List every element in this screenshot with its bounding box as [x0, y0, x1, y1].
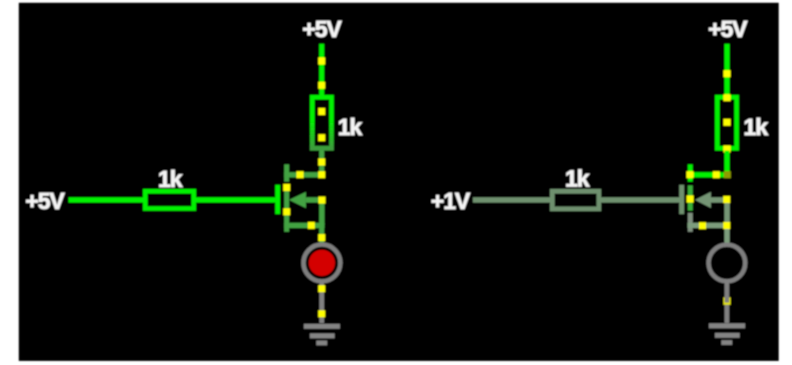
- current dot on wire B1: [724, 70, 731, 77]
- Q2 source stub: [688, 223, 728, 228]
- Q1 channel source segment: [284, 213, 289, 232]
- wire A5 : +5V input label to resistor R2: [69, 197, 144, 202]
- svg-text:1k: 1k: [338, 114, 363, 140]
- wire B6 : R4 to Q2 gate: [601, 197, 680, 202]
- wire B4 : LED D2 to ground: [725, 280, 730, 323]
- Q2 gate plate: [679, 185, 684, 214]
- fading current dot on wire B4: [723, 297, 730, 304]
- current dot on wire A2: [318, 159, 325, 166]
- svg-text:1k: 1k: [158, 166, 183, 192]
- current dots on Q1: [283, 171, 325, 229]
- wire B4 overlap segment: [725, 296, 730, 303]
- Q2 body line to source: [710, 197, 728, 202]
- Q2 source rail vertical: [725, 197, 730, 225]
- transistor Q2 : N-channel MOSFET: [679, 164, 730, 231]
- Q2 channel middle segment: [688, 186, 693, 211]
- current dots on wire A1: [318, 58, 325, 89]
- wire A2 : R1 bottom to Q1 drain corner: [319, 151, 324, 177]
- Q1 channel middle segment: [284, 186, 289, 211]
- current dots inside R1: [318, 108, 325, 141]
- svg-text:+1V: +1V: [431, 188, 471, 214]
- svg-text:+5V: +5V: [708, 16, 748, 42]
- current dots on wire A4: [318, 285, 325, 317]
- Q1 drain stub: [284, 172, 324, 177]
- transistor Q1 : N-channel MOSFET: [275, 164, 324, 231]
- Q2 drain stub: [688, 172, 730, 177]
- resistor R3 1k (pull-up, vertical): [717, 97, 736, 148]
- svg-text:+5V: +5V: [302, 16, 342, 42]
- current dots on Q2: [687, 171, 731, 229]
- wire A1 : +5V label to resistor R1: [319, 44, 324, 96]
- current dots on R3: [724, 94, 731, 152]
- wire B5 : +1V input label to resistor R4: [473, 197, 552, 202]
- current dot at Q2 source corner: [723, 222, 730, 229]
- LED D1 (lit, red): [304, 245, 341, 282]
- Q1 source rail vertical: [319, 197, 324, 225]
- Q1 body arrow: [289, 192, 306, 208]
- wire A3 : Q1 source to LED D1: [319, 225, 324, 244]
- Q1 body line to source: [306, 197, 324, 202]
- current dot on wire A3: [318, 234, 325, 241]
- resistor R2 1k (gate, horizontal): [145, 191, 194, 208]
- resistor R4 1k (gate, horizontal): [552, 191, 599, 209]
- Q1 gate plate: [275, 185, 280, 214]
- ground GND B: [709, 323, 745, 345]
- wire B1 : +5V label to resistor R3: [725, 44, 730, 96]
- wire B3 : Q2 source to LED D2: [725, 225, 730, 244]
- resistor R1 1k (pull-up, vertical): [312, 97, 331, 148]
- svg-text:1k: 1k: [565, 166, 590, 192]
- Q1 source stub: [284, 223, 324, 228]
- svg-text:+5V: +5V: [25, 188, 65, 214]
- wire A4 : LED D1 to ground: [319, 281, 324, 323]
- Q2 channel source segment: [688, 213, 693, 232]
- svg-text:1k: 1k: [744, 114, 769, 140]
- ground GND A: [304, 324, 340, 346]
- wire B2 : R3 bottom to Q2 drain corner: [725, 151, 730, 177]
- LED D2 (off, dark): [709, 245, 746, 282]
- wire A6 : R2 to Q1 gate: [196, 197, 275, 202]
- Q2 body arrow: [695, 192, 711, 208]
- Q1 channel drain segment: [284, 164, 289, 181]
- Q2 channel drain segment: [688, 164, 693, 181]
